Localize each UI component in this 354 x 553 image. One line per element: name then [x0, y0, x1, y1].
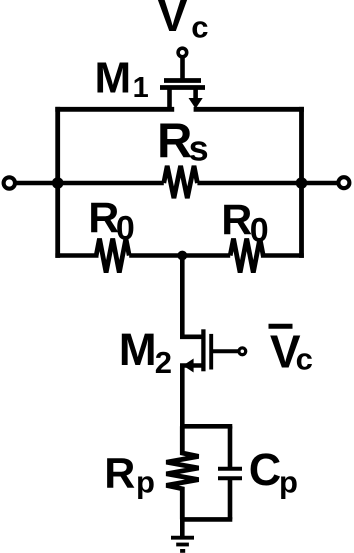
- svg-text:R: R: [157, 115, 192, 169]
- transistor M1 left (drain) leg: [167, 88, 172, 110]
- svg-text:1: 1: [133, 72, 149, 104]
- resistor Rp zigzag (vertical): [166, 426, 198, 519]
- svg-text:c: c: [191, 9, 208, 44]
- label Cp: [249, 444, 298, 499]
- label Rp: [104, 450, 155, 500]
- wire top rail right segment: [196, 107, 302, 112]
- resistor Rs zigzag: [164, 166, 198, 198]
- label Rs: [157, 115, 209, 169]
- wire RC bottom rail: [182, 517, 230, 522]
- svg-text:p: p: [136, 464, 155, 499]
- wire M2 gate to terminal: [211, 349, 238, 353]
- svg-text:p: p: [279, 464, 298, 499]
- terminal Vc (open circle): [178, 48, 187, 57]
- label R0 left: [88, 194, 135, 248]
- wire Cp branch bottom: [228, 478, 233, 519]
- wire RC top rail: [182, 424, 230, 429]
- transistor M1 channel plate: [160, 85, 205, 90]
- capacitor Cp bottom plate: [218, 476, 242, 480]
- svg-text:R: R: [221, 196, 252, 244]
- resistor R0 right zigzag: [230, 239, 263, 273]
- transistor M1 source arrow (points down): [189, 98, 203, 109]
- wire middle rail right segment: [197, 181, 338, 186]
- svg-text:V: V: [158, 0, 188, 41]
- ground symbol bar 2: [176, 543, 189, 547]
- label M1: [95, 53, 149, 104]
- transistor M1 right (source) leg: [193, 88, 198, 100]
- wire left bus (vertical): [55, 109, 60, 255]
- label R0 right: [221, 196, 268, 250]
- terminal left port (open circle): [4, 177, 15, 188]
- transistor M2 source arrow (points left): [183, 359, 194, 373]
- capacitor Cp top plate: [218, 467, 242, 471]
- svg-text:s: s: [189, 127, 209, 168]
- ground symbol bar 1: [171, 536, 194, 540]
- junction dot center (bottom rail / M2 drain): [177, 251, 187, 261]
- svg-text:R: R: [104, 450, 135, 498]
- wire Cp branch top: [228, 426, 233, 468]
- junction dot left (bus / middle rail): [52, 177, 64, 189]
- wire M2 source (left from channel, then down): [182, 366, 203, 427]
- wire bottom rail right segment: [263, 253, 301, 258]
- resistor R0 left zigzag: [96, 239, 129, 273]
- label M2: [119, 324, 172, 380]
- svg-text:R: R: [88, 194, 119, 242]
- wire M2 drain (down from center junction, then right): [182, 256, 203, 337]
- transistor M2 channel bar: [201, 329, 205, 371]
- wire middle rail left segment: [16, 181, 164, 186]
- svg-text:C: C: [249, 444, 282, 495]
- svg-text:M: M: [95, 53, 132, 102]
- wire bottom rail middle segment: [129, 253, 230, 258]
- ground symbol bar 3: [180, 549, 185, 553]
- junction dot right (bus / middle rail): [296, 177, 308, 189]
- wire ground stem: [180, 519, 185, 537]
- wire top rail left segment: [58, 107, 172, 112]
- wire Vc terminal to M1 gate: [180, 57, 185, 81]
- terminal M2 gate (open circle): [239, 348, 246, 355]
- svg-text:M: M: [119, 324, 157, 375]
- transistor M1 gate plate: [164, 78, 201, 83]
- label Vc (control voltage, top): [158, 0, 209, 44]
- wire bottom rail left segment: [58, 253, 96, 258]
- terminal right port (open circle): [338, 177, 349, 188]
- svg-text:c: c: [296, 342, 313, 377]
- wire right bus (vertical): [299, 109, 304, 255]
- label Vbar c (inverted control voltage): [269, 325, 313, 377]
- svg-text:2: 2: [155, 345, 172, 380]
- transistor M2 gate bar: [209, 334, 213, 370]
